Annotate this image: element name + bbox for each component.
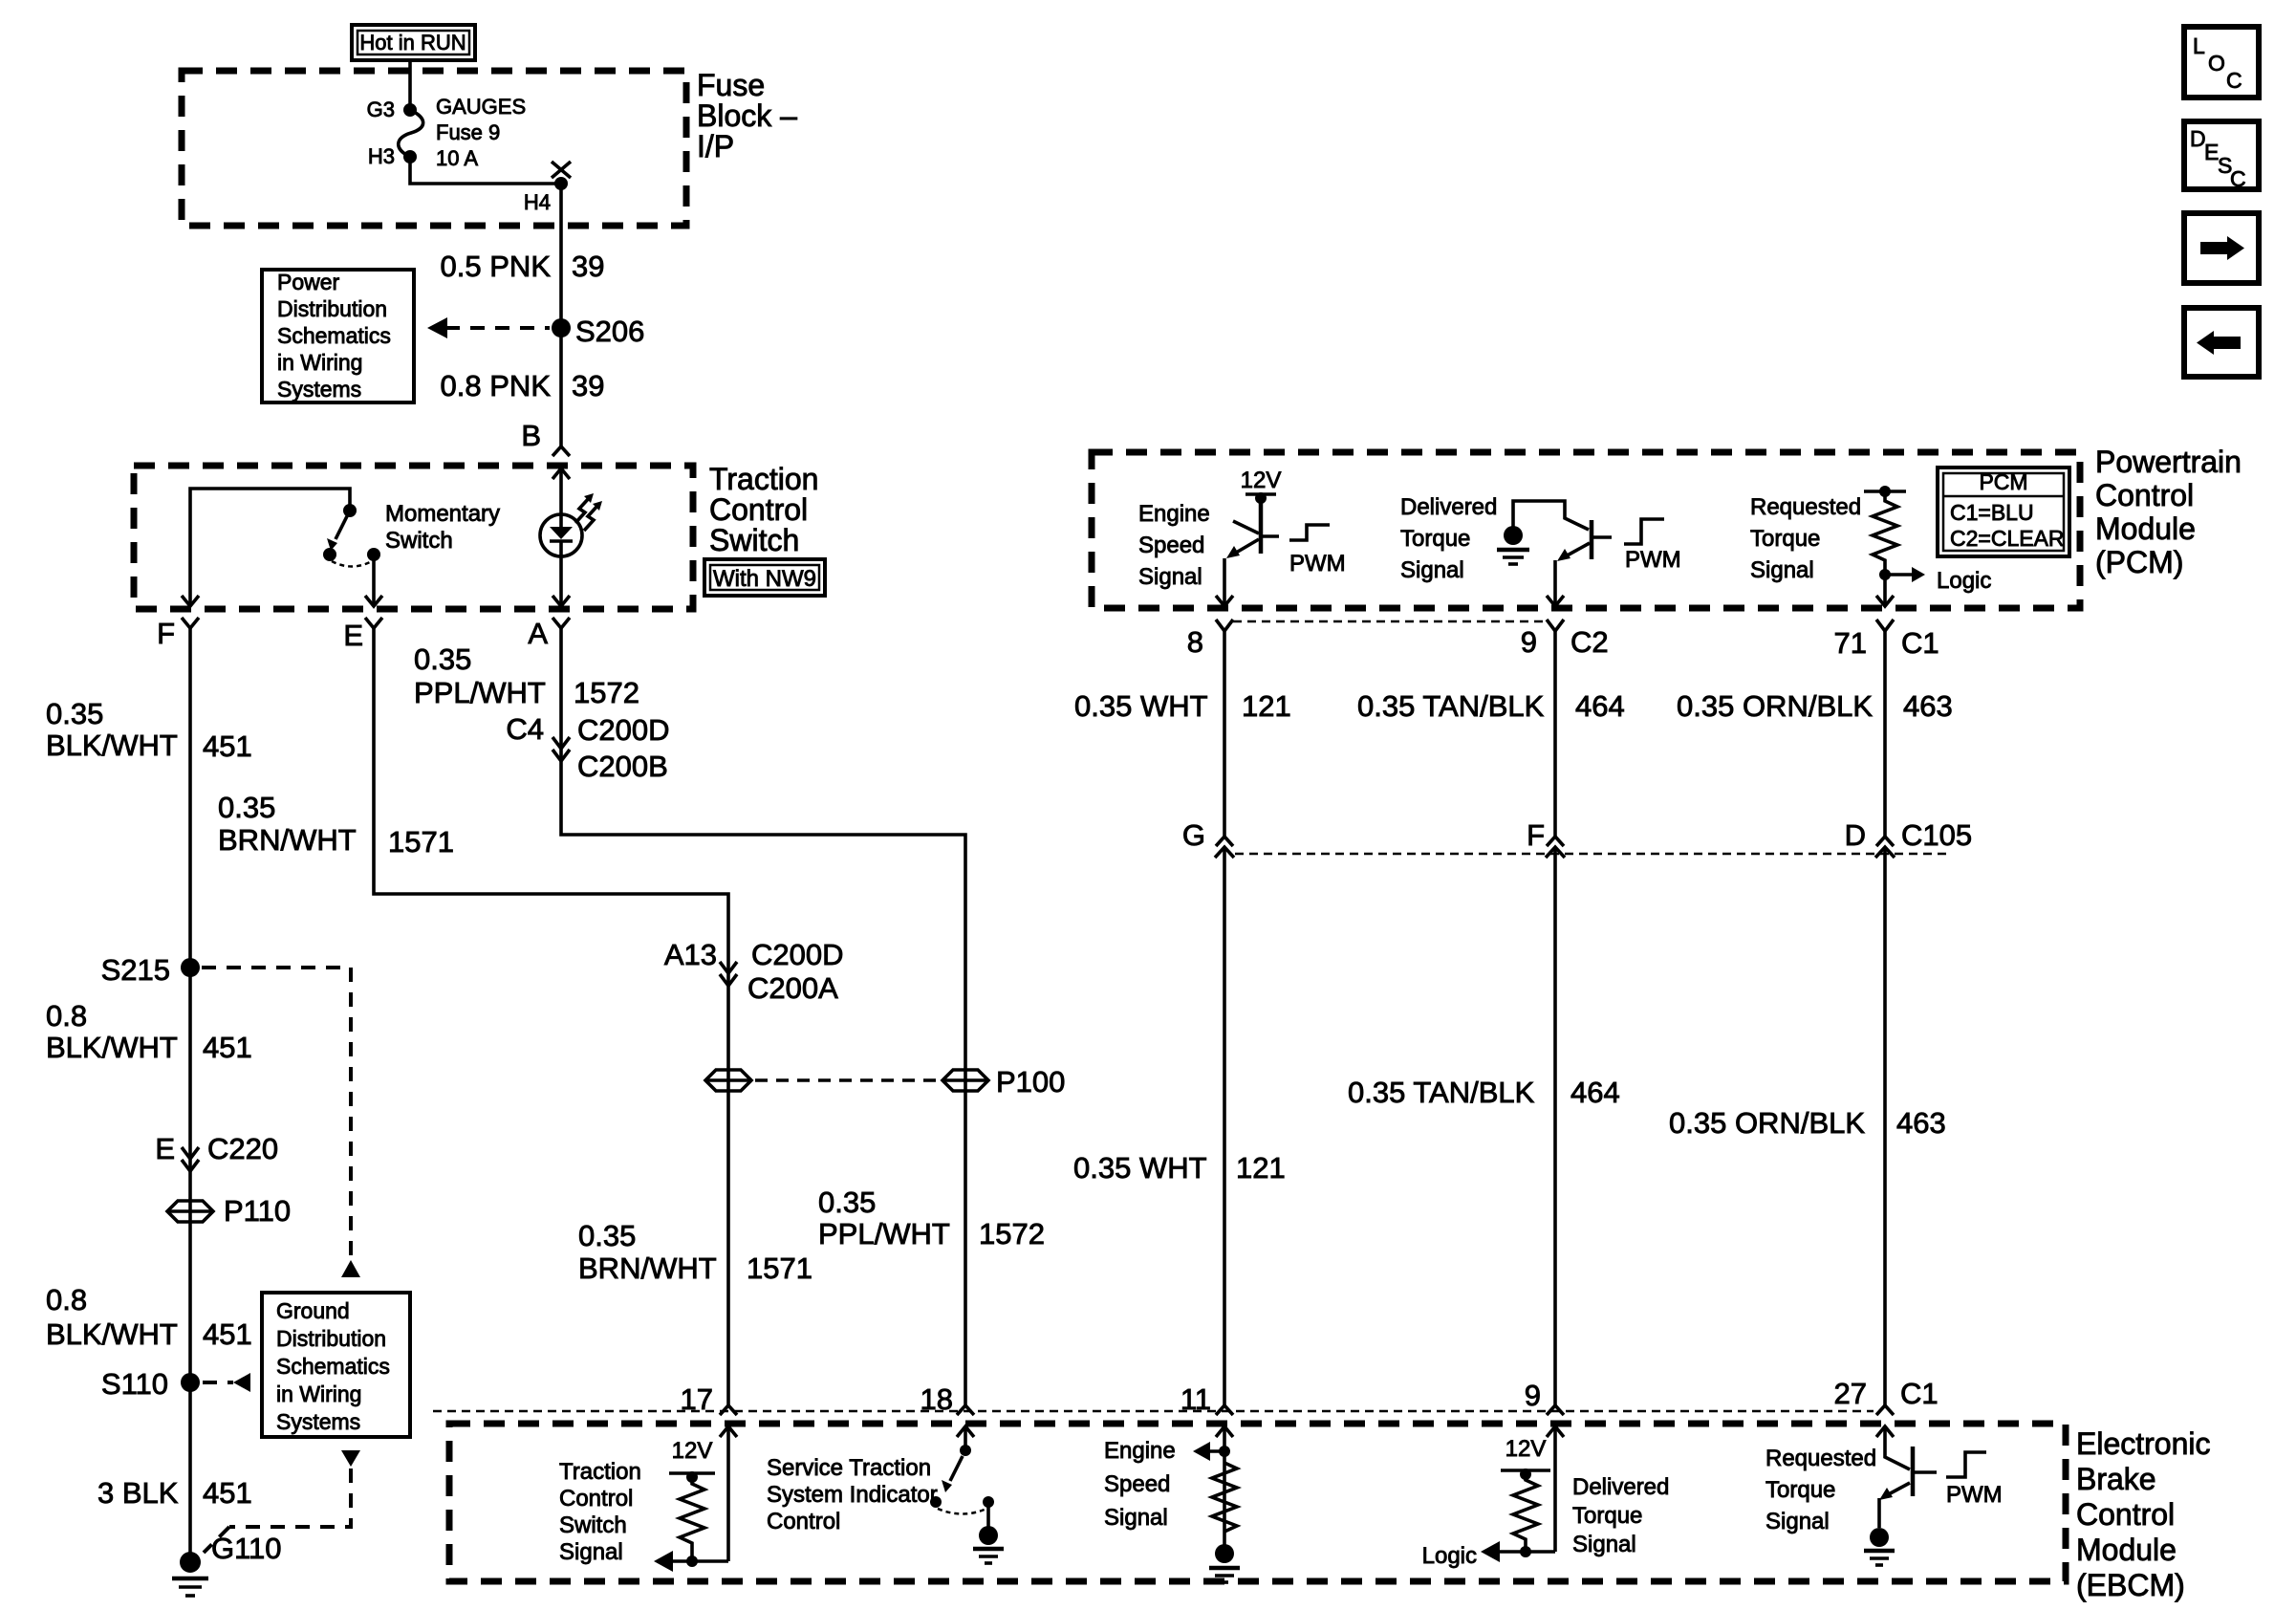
svg-text:Logic: Logic: [1422, 1543, 1477, 1569]
wire H3 to H4: [410, 157, 561, 184]
pin 27 C1 terminal chevron and label: [1876, 1405, 1894, 1415]
svg-text:9: 9: [1521, 625, 1537, 659]
wire 451 BLK/WHT from pin F down to G110: [188, 628, 192, 1562]
wire to pin 8 with arrow: [1223, 558, 1226, 606]
svg-text:PPL/WHT: PPL/WHT: [818, 1217, 950, 1251]
PWM step symbol: [1289, 525, 1330, 540]
svg-text:O: O: [2208, 51, 2225, 76]
requested torque signal label: [1750, 494, 1861, 583]
svg-text:12V: 12V: [1505, 1436, 1547, 1462]
wire 463 ORN/BLK from PCM pin 71 to EBCM pin 27: [1883, 631, 1887, 837]
svg-text:G3: G3: [367, 98, 395, 121]
svg-text:Requested: Requested: [1765, 1446, 1876, 1471]
svg-text:451: 451: [203, 1031, 252, 1064]
service traction system indicator control label: [767, 1455, 938, 1534]
svg-text:S206: S206: [575, 315, 644, 348]
svg-text:0.8: 0.8: [46, 1283, 87, 1316]
svg-text:8: 8: [1187, 625, 1203, 659]
svg-text:0.35 WHT: 0.35 WHT: [1074, 689, 1208, 723]
svg-text:C200A: C200A: [747, 971, 838, 1005]
splice S215: [181, 958, 200, 977]
svg-text:C1: C1: [1900, 1377, 1939, 1410]
pin 71 C1 chevron: [1876, 620, 1894, 631]
svg-text:1571: 1571: [747, 1251, 812, 1285]
svg-text:0.5 PNK: 0.5 PNK: [441, 250, 552, 283]
svg-text:Control: Control: [559, 1486, 633, 1512]
logic output arrow pin 9: [1496, 1550, 1555, 1554]
svg-text:Switch: Switch: [709, 523, 799, 557]
svg-text:464: 464: [1575, 689, 1625, 723]
svg-text:Torque: Torque: [1765, 1477, 1835, 1503]
svg-text:Control: Control: [2095, 478, 2194, 512]
svg-text:Signal: Signal: [1400, 557, 1464, 583]
dashed reference arrow to Power Distribution: [445, 326, 550, 330]
svg-text:Block –: Block –: [697, 98, 797, 133]
arrow out of box at E: [365, 596, 382, 606]
node H3: [403, 150, 417, 163]
svg-text:1571: 1571: [388, 825, 454, 859]
svg-text:Ground: Ground: [276, 1298, 350, 1323]
svg-text:451: 451: [203, 1317, 252, 1351]
pin 27 cell: arrow into box: [1876, 1426, 1894, 1437]
svg-text:12V: 12V: [672, 1438, 713, 1464]
svg-text:Torque: Torque: [1750, 526, 1820, 552]
svg-text:in Wiring: in Wiring: [277, 350, 362, 375]
svg-text:9: 9: [1525, 1379, 1541, 1412]
svg-text:18: 18: [921, 1382, 953, 1416]
svg-text:P100: P100: [996, 1065, 1065, 1099]
pass-through grommet P110: [167, 1201, 213, 1222]
svg-text:Control: Control: [767, 1509, 840, 1534]
label box With NW9: [704, 559, 825, 596]
svg-text:Signal: Signal: [1750, 557, 1814, 583]
svg-text:Module: Module: [2095, 511, 2196, 546]
pin 17 terminal chevron and label: [720, 1405, 737, 1415]
wire to ground pin 18: [986, 1502, 990, 1528]
EBCM connector row thin dashed: [433, 1410, 1874, 1413]
svg-text:Requested: Requested: [1750, 494, 1861, 520]
wire to pin 9 with arrow: [1553, 560, 1557, 606]
wire E contact to pin E: [372, 555, 376, 606]
output arrow left pin 11: [1219, 1446, 1230, 1457]
C105 pin G terminals: [1216, 837, 1233, 846]
svg-text:Hot in RUN: Hot in RUN: [359, 31, 466, 54]
svg-text:E: E: [343, 619, 363, 652]
ground G110: [172, 1552, 208, 1596]
svg-text:S215: S215: [101, 953, 170, 987]
module name Electronic Brake Control Module (EBCM): [2076, 1426, 2211, 1602]
svg-text:0.35 ORN/BLK: 0.35 ORN/BLK: [1669, 1106, 1865, 1140]
traction control switch dashed box: [134, 466, 693, 609]
svg-text:Signal: Signal: [1104, 1505, 1168, 1531]
dashed reference arrow S110 to Ground Distribution box: [203, 1381, 233, 1384]
terminal chevron B entry: [552, 446, 570, 456]
svg-text:Delivered: Delivered: [1572, 1474, 1669, 1500]
wire LED to pin A: [559, 556, 563, 606]
wire 1571 BRN/WHT from pin E to EBCM pin 17: [374, 628, 728, 1405]
svg-text:0.35: 0.35: [46, 697, 103, 730]
svg-text:P110: P110: [224, 1194, 291, 1228]
svg-text:39: 39: [572, 250, 604, 283]
svg-text:C2: C2: [1570, 625, 1609, 659]
svg-text:Switch: Switch: [385, 528, 453, 554]
svg-text:463: 463: [1896, 1106, 1946, 1140]
svg-text:1572: 1572: [574, 676, 639, 709]
switch contacts: [323, 548, 336, 561]
wire 464 TAN/BLK from PCM pin 9 to EBCM pin 9: [1553, 631, 1557, 837]
switch arm with arrowhead: [336, 516, 347, 539]
pin 18 terminal chevron and label: [957, 1405, 974, 1415]
svg-text:Signal: Signal: [1572, 1532, 1636, 1557]
svg-text:Speed: Speed: [1104, 1471, 1170, 1497]
svg-text:121: 121: [1236, 1151, 1286, 1185]
pin F chevron: [182, 618, 199, 628]
svg-text:0.8: 0.8: [46, 999, 87, 1033]
module name Fuse Block - I/P: [697, 68, 797, 163]
svg-text:Distribution: Distribution: [277, 296, 387, 321]
svg-text:(PCM): (PCM): [2095, 545, 2183, 579]
svg-text:Power: Power: [277, 270, 340, 294]
svg-text:0.35 ORN/BLK: 0.35 ORN/BLK: [1677, 689, 1873, 723]
pin 11 cell: arrow into box: [1216, 1426, 1233, 1437]
svg-text:G110: G110: [211, 1532, 282, 1565]
svg-text:11: 11: [1180, 1382, 1211, 1416]
dashed travel arc: [332, 561, 372, 567]
nav box DESC: [2184, 121, 2259, 191]
wire from Hot in RUN to fuse: [408, 60, 412, 110]
svg-text:PCM: PCM: [1979, 469, 2027, 494]
svg-text:Module: Module: [2076, 1533, 2177, 1567]
svg-text:Momentary: Momentary: [385, 501, 500, 527]
svg-text:Schematics: Schematics: [276, 1354, 390, 1379]
svg-text:A13: A13: [664, 938, 717, 971]
svg-text:Traction: Traction: [709, 462, 818, 496]
svg-text:Fuse 9: Fuse 9: [436, 120, 500, 144]
wire 39 PNK from H4 down to traction switch: [559, 184, 563, 446]
pin 8 chevron: [1216, 620, 1233, 631]
pin 18 cell: arrow into box: [957, 1426, 974, 1437]
dashed reference path Ground Distribution box to G110: [341, 1450, 360, 1467]
fuse GAUGES Fuse 9 10A: [399, 110, 423, 157]
svg-text:B: B: [521, 419, 541, 452]
C105 pin F terminals: [1547, 837, 1564, 846]
svg-text:C4: C4: [506, 712, 544, 746]
pin 11 terminal chevron and label: [1216, 1405, 1233, 1415]
delivered torque signal label EBCM: [1572, 1474, 1669, 1557]
resistor R pin 11: [1212, 1463, 1237, 1532]
connector C200 pin C4 arrow and chevron: [552, 737, 570, 749]
svg-text:1572: 1572: [979, 1217, 1045, 1251]
connector C105 row thin dashed: [1235, 853, 1950, 856]
svg-text:0.35 WHT: 0.35 WHT: [1073, 1151, 1207, 1185]
engine speed signal driver label: [1138, 501, 1210, 590]
svg-text:Electronic: Electronic: [2076, 1426, 2211, 1461]
svg-text:Torque: Torque: [1572, 1503, 1642, 1529]
pin E chevron: [365, 618, 382, 628]
splice S110: [181, 1373, 200, 1392]
svg-text:27: 27: [1834, 1377, 1867, 1410]
pass-through grommet P100 left: [705, 1070, 751, 1091]
PCM dashed box: [1092, 452, 2080, 608]
svg-text:F: F: [1527, 818, 1545, 852]
svg-text:Delivered: Delivered: [1400, 494, 1497, 520]
svg-text:D: D: [1845, 818, 1866, 852]
svg-text:Service Traction: Service Traction: [767, 1455, 931, 1481]
connector C200 pin A13 chevrons: [720, 962, 737, 973]
reference box Power Distribution Schematics in Wiring Systems: [262, 270, 414, 402]
svg-text:C1=BLU: C1=BLU: [1950, 500, 2034, 525]
dashed reference path S215 to Ground Distribution box: [202, 968, 351, 1264]
svg-text:C200B: C200B: [577, 750, 668, 783]
ground in PCM: [1497, 526, 1529, 564]
svg-text:3 BLK: 3 BLK: [97, 1476, 179, 1510]
dashed link between P100 grommets: [755, 1078, 939, 1082]
svg-text:C220: C220: [207, 1132, 278, 1165]
svg-text:451: 451: [203, 729, 252, 763]
svg-text:Switch: Switch: [559, 1512, 627, 1538]
ground pin 27: [1864, 1528, 1895, 1565]
svg-text:GAUGES: GAUGES: [436, 95, 526, 119]
svg-text:PPL/WHT: PPL/WHT: [414, 676, 546, 709]
transistor Q delivered torque: [1557, 520, 1612, 561]
svg-text:BRN/WHT: BRN/WHT: [218, 823, 357, 857]
splice S206: [552, 318, 571, 337]
svg-text:Logic: Logic: [1937, 568, 1991, 594]
pin 9 terminal chevron and label: [1547, 1405, 1564, 1415]
delivered torque signal label: [1400, 494, 1497, 583]
svg-text:39: 39: [572, 369, 604, 402]
svg-text:G: G: [1182, 818, 1205, 852]
svg-text:H4: H4: [524, 190, 551, 214]
svg-text:(EBCM): (EBCM): [2076, 1568, 2185, 1602]
EBCM dashed box: [449, 1424, 2066, 1581]
svg-text:12V: 12V: [1241, 468, 1282, 493]
traction control switch signal label: [559, 1459, 641, 1565]
svg-text:71: 71: [1834, 626, 1867, 660]
svg-text:Engine: Engine: [1138, 501, 1210, 527]
PCM connector key box: [1938, 468, 2069, 556]
svg-text:S110: S110: [101, 1367, 168, 1401]
label box "Hot in RUN": [352, 25, 475, 60]
reference box Ground Distribution Schematics in Wiring Systems: [262, 1293, 410, 1437]
requested torque signal label EBCM: [1765, 1446, 1876, 1534]
PWM step symbol: [1946, 1452, 1986, 1477]
svg-text:0.35: 0.35: [578, 1219, 636, 1252]
wire ground to transistor: [1513, 501, 1589, 535]
svg-text:in Wiring: in Wiring: [276, 1382, 361, 1406]
ground pin 11: [1209, 1544, 1240, 1582]
supply rail and resistor R requested torque: [1864, 490, 1906, 493]
svg-text:Systems: Systems: [277, 377, 361, 402]
svg-text:Traction: Traction: [559, 1459, 641, 1485]
wire 121 WHT from PCM pin 8 to EBCM pin 11: [1223, 631, 1226, 837]
svg-text:463: 463: [1903, 689, 1953, 723]
pass-through grommet P100 right: [942, 1070, 988, 1091]
svg-text:Engine: Engine: [1104, 1438, 1176, 1464]
connector C220 pin E chevrons: [182, 1147, 199, 1159]
svg-text:464: 464: [1570, 1076, 1620, 1109]
svg-text:Torque: Torque: [1400, 526, 1470, 552]
svg-text:17: 17: [681, 1382, 713, 1416]
fuse block I/P dashed box: [182, 71, 686, 226]
momentary switch: [190, 489, 380, 606]
svg-text:C200D: C200D: [751, 938, 844, 971]
PWM step symbol: [1624, 519, 1664, 544]
svg-text:H3: H3: [368, 144, 395, 168]
svg-text:Systems: Systems: [276, 1409, 360, 1434]
nav box arrow right: [2184, 213, 2259, 283]
svg-text:Signal: Signal: [1138, 564, 1202, 590]
wire 1572 PPL/WHT from pin A to EBCM pin 18: [561, 628, 965, 1405]
pin 9 cell: arrow into box: [1547, 1426, 1564, 1437]
svg-text:BLK/WHT: BLK/WHT: [46, 1031, 178, 1064]
switch in EBCM pin 18: [930, 1445, 994, 1514]
svg-text:Powertrain: Powertrain: [2095, 445, 2242, 479]
svg-text:0.35 TAN/BLK: 0.35 TAN/BLK: [1357, 689, 1545, 723]
svg-text:Fuse: Fuse: [697, 68, 765, 102]
pin 17 cell: arrow into box: [720, 1426, 737, 1437]
svg-text:0.35: 0.35: [818, 1186, 876, 1219]
svg-text:C2=CLEAR: C2=CLEAR: [1950, 526, 2065, 551]
svg-text:Signal: Signal: [559, 1539, 623, 1565]
svg-text:F: F: [157, 617, 175, 650]
svg-text:L: L: [2193, 33, 2205, 58]
arrow into box at B: [552, 468, 570, 479]
svg-text:System Indicator: System Indicator: [767, 1482, 938, 1508]
svg-text:BRN/WHT: BRN/WHT: [578, 1251, 717, 1285]
arrow at pin 71: [1876, 596, 1894, 606]
transistor Q engine speed: [1226, 498, 1279, 558]
module name Traction Control Switch: [709, 462, 818, 557]
svg-text:C1: C1: [1901, 626, 1939, 660]
LED indicator: [540, 493, 602, 556]
transistor Q requested torque EBCM: [1879, 1426, 1937, 1500]
svg-text:E: E: [155, 1132, 175, 1165]
svg-text:0.35 TAN/BLK: 0.35 TAN/BLK: [1348, 1076, 1535, 1109]
svg-text:C200D: C200D: [577, 713, 670, 747]
ground pin 18: [973, 1526, 1004, 1563]
svg-text:PWM: PWM: [1625, 547, 1681, 573]
LED light arrows: [575, 497, 590, 523]
pin A chevron: [552, 618, 570, 628]
svg-text:With NW9: With NW9: [713, 566, 816, 592]
svg-text:Control: Control: [709, 492, 808, 527]
svg-text:Brake: Brake: [2076, 1462, 2156, 1496]
nav box LOC: [2184, 27, 2259, 98]
svg-text:BLK/WHT: BLK/WHT: [46, 729, 178, 762]
signal output arrow left: [669, 1559, 728, 1563]
svg-text:PWM: PWM: [1946, 1482, 2003, 1508]
C105 pin D terminals: [1876, 837, 1894, 846]
svg-text:Speed: Speed: [1138, 533, 1204, 558]
svg-text:0.35: 0.35: [218, 791, 275, 824]
svg-text:0.35: 0.35: [414, 642, 471, 676]
module name Powertrain Control Module (PCM): [2095, 445, 2242, 579]
engine speed signal label EBCM: [1104, 1438, 1176, 1531]
node G3: [403, 103, 417, 117]
wire to ground pin 27: [1877, 1498, 1881, 1528]
logic output arrow: [1879, 569, 1891, 580]
svg-text:PWM: PWM: [1289, 551, 1346, 577]
svg-text:Schematics: Schematics: [277, 323, 391, 348]
svg-text:Control: Control: [2076, 1497, 2175, 1532]
svg-text:0.8 PNK: 0.8 PNK: [441, 369, 552, 402]
svg-text:Signal: Signal: [1765, 1509, 1830, 1534]
svg-text:BLK/WHT: BLK/WHT: [46, 1317, 178, 1351]
svg-text:451: 451: [203, 1476, 252, 1510]
svg-text:A: A: [528, 617, 548, 650]
arrow out of box at A: [552, 596, 570, 606]
svg-text:C: C: [2226, 68, 2242, 93]
svg-text:C105: C105: [1901, 818, 1972, 852]
svg-text:121: 121: [1242, 689, 1291, 723]
PCM connector row thin dashed: [1233, 620, 1549, 623]
pin H4 junction with X mark: [554, 177, 568, 190]
svg-text:C: C: [2230, 166, 2246, 191]
arrow out of box at F: [182, 596, 199, 606]
nav box arrow left: [2184, 308, 2259, 377]
svg-text:Distribution: Distribution: [276, 1326, 386, 1351]
svg-text:10 A: 10 A: [436, 146, 478, 170]
pin 9 C2 chevron: [1547, 620, 1564, 631]
svg-text:I/P: I/P: [697, 129, 734, 163]
